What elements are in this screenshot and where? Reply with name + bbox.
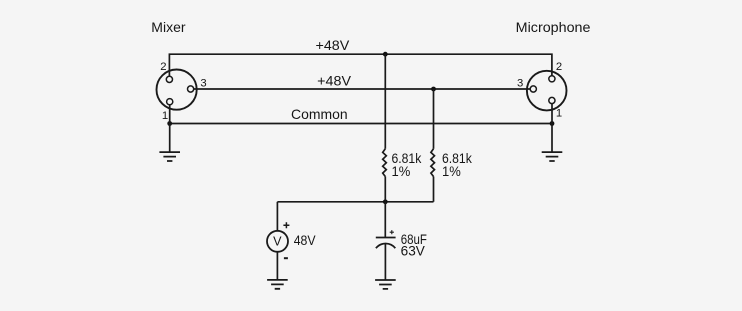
svg-text:3: 3 <box>200 78 206 90</box>
wire J2 pin1 to Common <box>551 104 553 124</box>
J2 pin 2 number <box>556 61 562 73</box>
svg-text:Common: Common <box>291 106 348 122</box>
svg-text:1%: 1% <box>442 164 461 179</box>
wire +48V top rail <box>169 54 552 76</box>
wire top rail to R1 <box>384 54 386 149</box>
svg-text:3: 3 <box>517 77 523 89</box>
label C1 voltage 63V <box>401 243 425 258</box>
capacitor C1 curved plate <box>376 244 395 249</box>
wire +48V middle rail <box>194 88 531 90</box>
V1 letter <box>273 235 282 249</box>
resistor R2 <box>431 149 435 177</box>
J2 pin 3 number <box>517 77 523 89</box>
svg-text:2: 2 <box>160 61 166 73</box>
node junction Common left <box>167 121 172 126</box>
V1 minus sign <box>284 257 288 259</box>
capacitor C1 top plate <box>376 237 396 239</box>
label R2 value 6.81k <box>442 151 472 166</box>
J2 pin 3 <box>530 86 536 92</box>
label R1 tolerance 1% <box>392 164 411 179</box>
node junction bottom <box>383 199 388 204</box>
voltage source V1 <box>267 231 288 252</box>
ground V1 <box>267 280 288 289</box>
connector J2 Microphone body <box>527 71 567 111</box>
svg-text:1: 1 <box>162 110 168 122</box>
wire Common to mixer ground <box>169 124 171 153</box>
J2 pin 1 <box>549 97 555 103</box>
wire V1 to ground <box>276 252 278 280</box>
wire J1 pin1 to Common <box>169 105 171 124</box>
label Common <box>291 106 348 122</box>
svg-text:V: V <box>273 235 282 249</box>
label Microphone <box>516 19 591 35</box>
svg-text:Microphone: Microphone <box>516 19 591 35</box>
label +48V middle <box>317 72 351 88</box>
J1 pin 3 <box>188 86 194 92</box>
svg-text:Mixer: Mixer <box>151 19 186 35</box>
resistor R1 <box>383 149 387 177</box>
J2 pin 1 number <box>556 107 562 119</box>
svg-text:2: 2 <box>556 61 562 73</box>
label +48V top <box>316 37 350 53</box>
J1 pin 3 number <box>200 78 206 90</box>
svg-text:63V: 63V <box>401 243 425 258</box>
J2 pin 2 <box>549 76 555 82</box>
wire middle rail to R2 <box>433 89 435 149</box>
label R2 tolerance 1% <box>442 164 461 179</box>
node junction on top rail <box>383 52 388 57</box>
capacitor C1 plus sign <box>390 230 394 234</box>
svg-text:1%: 1% <box>392 164 411 179</box>
J1 pin 1 number <box>162 110 168 122</box>
ground mixer <box>159 152 180 161</box>
wire R2 to bottom node <box>433 177 435 202</box>
wire C1 to ground <box>384 244 386 280</box>
svg-text:+48V: +48V <box>316 37 350 53</box>
connector J1 Mixer body <box>157 70 197 110</box>
wire bottom node to V1 <box>276 202 278 231</box>
wire Common rail <box>170 123 552 125</box>
wire bottom node rail <box>277 201 433 203</box>
node junction Common right <box>550 121 555 126</box>
svg-text:+48V: +48V <box>317 72 351 88</box>
label Mixer <box>151 19 186 35</box>
label C1 value 68uF <box>401 232 427 247</box>
svg-text:1: 1 <box>556 107 562 119</box>
node junction on middle rail <box>431 87 436 92</box>
wire R1 to bottom node <box>384 177 386 202</box>
label R1 value 6.81k <box>392 151 422 166</box>
J1 pin 1 <box>167 99 173 105</box>
J1 pin 2 <box>166 76 172 82</box>
wire bottom node to C1 <box>384 202 386 238</box>
V1 plus sign <box>283 222 289 228</box>
ground microphone <box>542 152 563 161</box>
svg-text:48V: 48V <box>294 233 316 248</box>
wire Common to microphone ground <box>551 124 553 153</box>
ground C1 <box>375 280 396 289</box>
label V1 48V <box>294 233 316 248</box>
J1 pin 2 number <box>160 61 166 73</box>
